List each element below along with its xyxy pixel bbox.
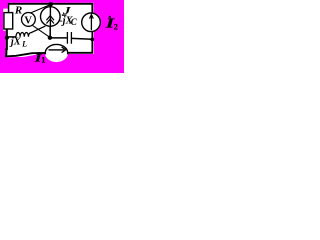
svg-text:R: R (14, 5, 22, 17)
svg-text:2: 2 (114, 23, 118, 32)
svg-text:1: 1 (41, 56, 45, 65)
svg-text:jX: jX (9, 37, 22, 48)
svg-text:C: C (71, 17, 78, 27)
svg-text:L: L (21, 40, 27, 49)
svg-text:V: V (24, 16, 32, 27)
